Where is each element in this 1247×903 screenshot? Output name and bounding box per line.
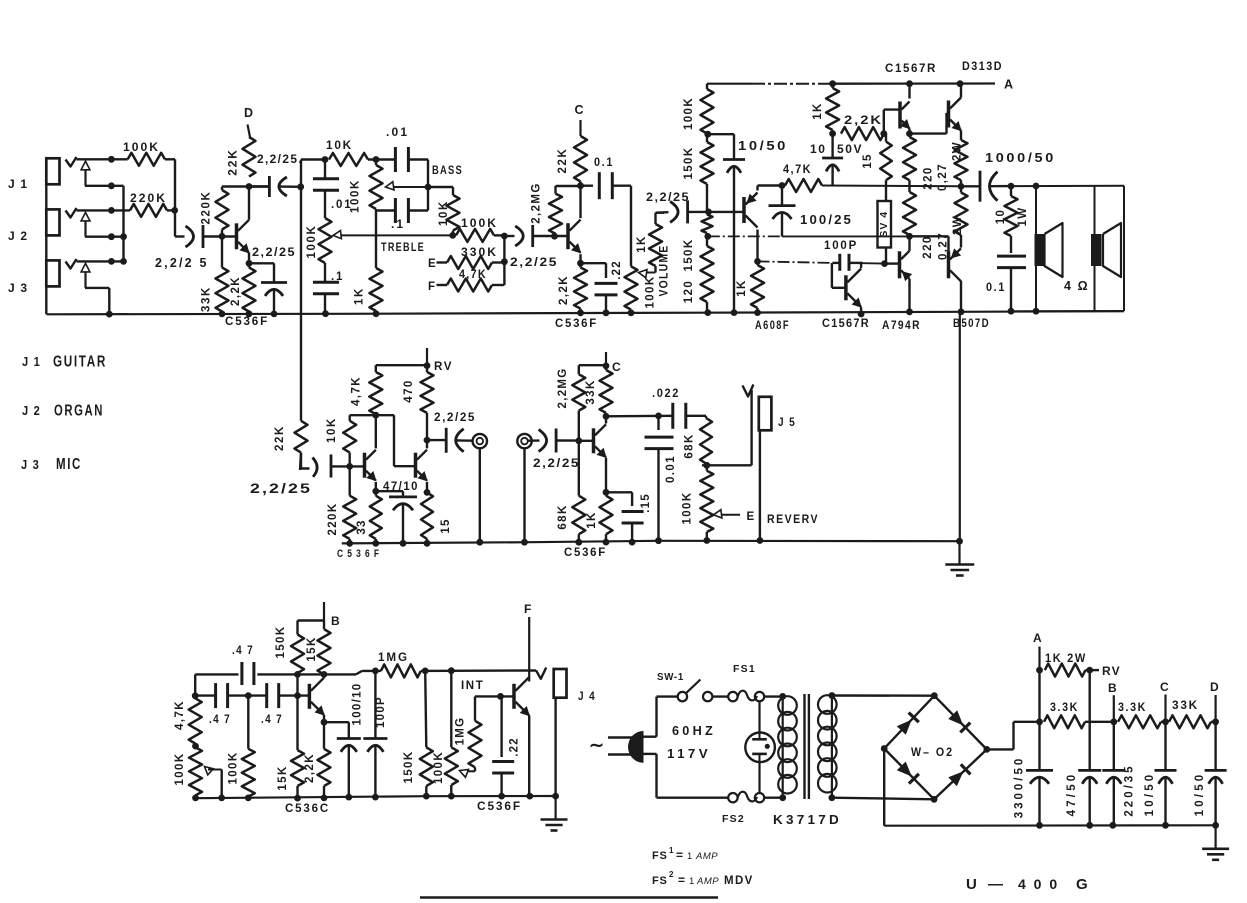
wire Q4 collector	[906, 80, 913, 98]
transistor Q11 C536F return	[594, 424, 607, 457]
svg-text:FS1: FS1	[733, 663, 756, 675]
svg-text:2,2/25.: 2,2/25.	[257, 152, 303, 166]
svg-text:1000/50: 1000/50	[985, 150, 1056, 165]
wire A794R collector	[908, 236, 910, 251]
label 1K ret vert	[586, 511, 598, 529]
label 150K trem vert	[275, 625, 287, 658]
AC plug	[608, 731, 644, 763]
svg-text:D313D: D313D	[962, 61, 1003, 73]
capacitor .47 phase1	[216, 683, 228, 708]
svg-text:2,2/25: 2,2/25	[646, 190, 690, 204]
wire Q13 collector	[0, 0, 1, 1]
label RV supply	[1102, 664, 1121, 678]
wire plug bottom	[644, 754, 729, 798]
svg-text:100K: 100K	[461, 216, 498, 230]
node reverb mix	[702, 462, 752, 469]
capacitor .1 mid	[395, 198, 408, 223]
resistor 2,2K Q2 emitter	[574, 263, 587, 316]
wire bass cap to bass node	[408, 160, 428, 188]
ground symbol trem	[541, 796, 568, 830]
capacitor 47/10	[376, 491, 417, 546]
wire Q4 emitter node	[906, 129, 913, 138]
label D supply	[1210, 680, 1220, 694]
svg-text:150K: 150K	[403, 750, 415, 783]
resistor 150K divider	[701, 134, 714, 212]
resistor 33K Q1 base-gnd	[216, 236, 229, 317]
svg-text:E: E	[747, 511, 756, 523]
node after 10K	[373, 156, 380, 163]
label F	[428, 281, 436, 293]
svg-text:100/25: 100/25	[800, 213, 853, 227]
capacitor .47 osc top	[242, 662, 254, 685]
wire A column	[1036, 670, 1043, 725]
label 68K ret vert	[557, 504, 569, 529]
wire Q12 collector	[323, 674, 325, 677]
resistor 4,7K feedback	[785, 179, 822, 192]
wire jack switch bus	[120, 186, 127, 265]
wire bass pot bottom	[376, 209, 395, 268]
J1 tip contact	[66, 157, 77, 167]
svg-text:2,2/2 5: 2,2/2 5	[155, 256, 209, 270]
wire fs2 to xfmr	[764, 794, 786, 801]
jack J4	[536, 668, 567, 800]
wire collector tee	[222, 185, 268, 187]
svg-text:33K: 33K	[201, 286, 213, 312]
wire supply D stub	[248, 125, 251, 138]
svg-text:AMP: AMP	[696, 876, 719, 887]
resistor 1MG osc	[381, 664, 421, 677]
label 4,7K osc vert	[174, 700, 186, 730]
resistor 120 divider	[701, 236, 714, 316]
resistor 100K divider	[701, 84, 714, 138]
wire A794R emitter	[906, 279, 913, 315]
speaker 2	[1091, 186, 1121, 311]
label 4,7K fb	[783, 162, 812, 176]
wire ground drop right	[956, 312, 963, 545]
bass wiper arrow	[386, 182, 432, 191]
resistor 15K osc base	[291, 696, 304, 802]
label B507D	[953, 318, 990, 330]
capacitor .15 return	[606, 492, 644, 545]
node Q1 collector	[246, 183, 253, 190]
label 2,2K Q2 vert	[558, 275, 570, 305]
capacitor 2,2/25 reverb out	[427, 428, 473, 453]
node Q2 collector	[577, 182, 584, 190]
wire VAS emitter	[858, 307, 865, 317]
capacitor .22 trem	[492, 696, 514, 799]
svg-text:0.1: 0.1	[594, 155, 614, 169]
svg-text:150K: 150K	[683, 146, 695, 179]
wire osc line right	[421, 669, 536, 672]
wire return collector out	[606, 413, 672, 420]
resistor 220 lower	[903, 192, 916, 240]
label .47 top	[232, 643, 254, 657]
resistor 10 1W	[1005, 186, 1018, 253]
wire J3 tip	[77, 258, 124, 265]
label REVERV	[767, 514, 819, 526]
svg-text:=: =	[676, 848, 683, 862]
resistor 33 reverb emitter	[370, 491, 382, 546]
label 3300/50 vert	[1014, 756, 1026, 819]
svg-text:4,7K: 4,7K	[174, 700, 186, 730]
wire J1 switch	[85, 182, 124, 189]
label 4,7K rev vert	[351, 376, 363, 406]
wire secondary bottom	[832, 798, 934, 800]
label FS1	[733, 663, 756, 675]
connector RCA in	[517, 434, 531, 546]
label 100K ph vert	[228, 751, 240, 784]
label FS2	[722, 813, 745, 825]
diode bridge NW	[897, 713, 919, 735]
label 0.1 zobel	[986, 280, 1006, 294]
svg-text:4,7K: 4,7K	[783, 162, 812, 176]
svg-text:.22: .22	[611, 260, 623, 280]
fuse FS1	[728, 691, 764, 702]
svg-text:100K: 100K	[123, 140, 160, 154]
treble wiper arrow	[333, 231, 453, 239]
svg-text:BASS: BASS	[432, 163, 463, 177]
svg-text:1: 1	[687, 851, 692, 862]
label 2,2/25 bypass	[252, 245, 296, 259]
wire to volume pot	[630, 186, 632, 267]
wire J2 switch	[85, 233, 127, 240]
J2 tip contact	[66, 208, 77, 218]
node after 1MG	[422, 668, 429, 675]
svg-text:C536F: C536F	[225, 316, 269, 328]
svg-text:22K: 22K	[557, 148, 569, 174]
node tone in	[322, 156, 329, 163]
svg-text:100P: 100P	[375, 696, 387, 728]
label 68K mix vert	[684, 433, 696, 458]
svg-text:220K: 220K	[201, 191, 213, 225]
resistor 15 reverb	[421, 492, 433, 546]
wire RV column	[1088, 670, 1090, 770]
wire secondary top	[832, 694, 934, 697]
speaker 1	[1035, 186, 1063, 311]
svg-text:J 5: J 5	[778, 415, 796, 429]
capacitor 100P osc	[363, 671, 387, 801]
label 220 upper vert	[923, 166, 935, 189]
label B	[331, 614, 341, 628]
svg-text:4,7K: 4,7K	[351, 376, 363, 406]
node lower base	[881, 260, 888, 267]
label 22K vert	[226, 148, 240, 175]
node A	[1036, 667, 1043, 674]
svg-text:FS: FS	[652, 850, 668, 862]
J1 switch contact	[81, 161, 90, 186]
node feedback	[704, 233, 711, 240]
svg-text:2,2K: 2,2K	[304, 753, 316, 783]
capacitor 100/10	[324, 722, 361, 800]
svg-text:4,7K: 4,7K	[459, 269, 487, 281]
svg-text:3.3K: 3.3K	[1118, 700, 1147, 714]
label K3717D	[773, 813, 842, 827]
svg-text:INT: INT	[461, 680, 484, 692]
capacitor 10/50 bootstrap	[708, 134, 745, 316]
label D	[244, 106, 254, 120]
svg-text:C: C	[612, 360, 622, 374]
label 33K vert	[201, 286, 213, 312]
svg-text:2,2MG: 2,2MG	[531, 182, 543, 224]
J2 switch contact	[81, 212, 90, 236]
wire to .01 bass cap	[368, 158, 395, 160]
resistor 22K reverb tap	[295, 421, 308, 470]
resistor 470 reverb	[421, 366, 434, 441]
svg-text:RV: RV	[1102, 664, 1121, 678]
label 150K div vert	[683, 146, 695, 179]
resistor 4,7K reverb	[369, 365, 382, 414]
label C536F reverb1	[337, 548, 380, 560]
wire B stub	[323, 602, 325, 621]
resistor 68K return base	[572, 441, 585, 546]
svg-text:1MG: 1MG	[455, 717, 467, 746]
resistor 33K CD	[1169, 715, 1219, 728]
wire B branch	[298, 621, 325, 635]
label 117V	[667, 747, 711, 761]
svg-text:0.01: 0.01	[665, 455, 677, 483]
potentiometer 100K volume	[625, 266, 638, 316]
svg-text:2,2K: 2,2K	[558, 275, 570, 305]
label 100K	[123, 140, 160, 154]
label 3,3K AB	[1050, 700, 1079, 714]
label 33K CD	[1172, 698, 1199, 712]
jack J2	[46, 209, 59, 235]
label 1K rail vert	[812, 102, 824, 120]
label A608F	[755, 320, 790, 332]
resistor 1K tone	[370, 268, 383, 317]
resistor 150K divider lower	[702, 212, 713, 237]
svg-text:100K: 100K	[682, 491, 694, 524]
label B supply	[1108, 681, 1118, 695]
capacitor 2,2/25 driver in	[656, 200, 709, 223]
svg-text:3.3K: 3.3K	[1050, 700, 1079, 714]
label J2	[8, 229, 28, 243]
potentiometer 100K reverb	[700, 465, 713, 544]
capacitor 2,2/25 Q1 out	[249, 176, 304, 197]
label J3 MIC	[21, 456, 82, 473]
label 100/10 vert	[352, 683, 364, 726]
svg-text:150K: 150K	[683, 238, 695, 271]
svg-text:J 4: J 4	[578, 689, 596, 703]
label C reverb	[612, 360, 622, 374]
label F	[524, 602, 532, 616]
wire trem ground rail	[195, 796, 558, 798]
capacitor .01 treble top	[313, 160, 339, 219]
diode bridge NE	[948, 710, 970, 732]
resistor 2,2K osc emitter	[318, 722, 331, 801]
label .022	[652, 386, 680, 400]
svg-text:K3717D: K3717D	[773, 813, 842, 827]
svg-text:1K: 1K	[812, 102, 824, 120]
label 220/35 vert	[1124, 763, 1136, 816]
wire phase row	[195, 692, 309, 699]
capacitor 47/50	[1078, 770, 1101, 828]
resistor 2,2K Q1 emitter	[243, 263, 256, 317]
transistor Q7 A794R lower driver	[885, 251, 912, 280]
wire supply C stub	[579, 120, 581, 136]
wire Q12 emitter	[321, 715, 328, 726]
svg-text:2,2K: 2,2K	[844, 113, 883, 127]
jack J5	[743, 385, 772, 544]
label A rail	[1004, 78, 1014, 92]
thermistor SV4	[878, 180, 892, 263]
svg-text:33K: 33K	[1172, 698, 1199, 712]
label 10/50	[738, 139, 788, 153]
wire Q10 emitter	[424, 482, 431, 496]
node return collector	[603, 413, 610, 420]
svg-text:220: 220	[922, 235, 934, 258]
wire left ground bus of jacks	[45, 158, 47, 314]
resistor 3,3K AB	[1044, 715, 1117, 728]
node tone out	[449, 232, 456, 239]
resistor 1K 2W	[1045, 664, 1093, 677]
svg-text:2,2K: 2,2K	[230, 276, 242, 306]
svg-text:10K: 10K	[438, 200, 450, 226]
wire RV out	[1090, 669, 1099, 671]
svg-text:U: U	[966, 876, 978, 893]
resistor 2,2K bias	[841, 127, 887, 140]
wire bridge plus	[987, 722, 1040, 750]
label 33 vert	[356, 519, 368, 534]
label .1 bottom	[331, 271, 344, 283]
label INT	[461, 680, 484, 692]
svg-text:220K: 220K	[130, 191, 167, 205]
label 220K vert	[201, 191, 213, 225]
label 2,2K osc vert	[304, 753, 316, 783]
svg-text:F: F	[524, 602, 532, 616]
label J5	[778, 415, 796, 429]
capacitor 10 50V bootstrap2	[822, 134, 843, 186]
label 2,2K vert	[230, 276, 242, 306]
label VOLUME vert	[659, 245, 671, 297]
svg-text:D: D	[1210, 680, 1220, 694]
label 2W upper vert	[952, 141, 964, 161]
wire to reverb send	[301, 160, 325, 421]
label 100K int vert	[433, 751, 445, 784]
svg-text:15K: 15K	[306, 636, 318, 661]
speed wiper arrow	[205, 767, 226, 802]
resistor 1K rail	[826, 80, 839, 137]
capacitor 220/35	[1102, 722, 1125, 829]
svg-text:.15: .15	[640, 493, 652, 513]
potentiometer 100K bass	[370, 160, 383, 210]
wire sw to fs1	[712, 695, 728, 697]
capacitor .22 Q2 bypass	[581, 263, 618, 316]
wire Q10 collector	[426, 440, 428, 448]
resistor 2,2MG feedback	[549, 186, 581, 236]
resistor 220 upper	[903, 134, 916, 192]
wire C supply link	[579, 363, 610, 370]
wire Q1 emitter	[246, 253, 253, 267]
wire VAS line	[758, 261, 885, 263]
jack J3	[46, 260, 59, 286]
label .47 ph1	[209, 712, 231, 726]
capacitor 3300/50	[1026, 722, 1053, 829]
label 10K	[326, 138, 353, 152]
node driver base	[705, 209, 712, 216]
svg-text:W– O2: W– O2	[911, 745, 954, 759]
neon lamp	[745, 701, 775, 793]
svg-text:1K: 1K	[354, 287, 366, 305]
label W-O2	[911, 745, 954, 759]
label C supply	[1160, 680, 1170, 694]
label .1 mid	[391, 217, 405, 231]
svg-text:MDV: MDV	[724, 875, 754, 887]
label 2W lower vert	[952, 215, 964, 235]
label 100P vert	[375, 696, 387, 728]
svg-text:2,2/25: 2,2/25	[434, 410, 476, 424]
label J3	[8, 281, 28, 295]
wire J3 switch to ground	[85, 288, 113, 318]
label C536C	[285, 803, 330, 815]
wire D stub supply	[1214, 695, 1216, 722]
svg-text:FS2: FS2	[722, 813, 745, 825]
capacitor 0.1 Q2 out	[581, 172, 632, 199]
label 10/50 C vert	[1144, 772, 1156, 817]
wire plug top	[644, 697, 678, 737]
wire bass node down	[408, 187, 428, 211]
capacitor 2,2/25 Q1 bypass	[249, 263, 287, 317]
svg-text:J 2: J 2	[8, 229, 28, 243]
svg-text:100K: 100K	[683, 97, 695, 130]
label 100K bass vert	[350, 179, 362, 213]
label U-400G	[966, 876, 1089, 893]
svg-text:47/50: 47/50	[1066, 772, 1078, 817]
transistor Q6 B507D	[949, 248, 962, 281]
svg-text:.01: .01	[331, 199, 352, 211]
svg-text:=: =	[678, 873, 685, 887]
label FS1 note	[652, 846, 718, 862]
svg-text:2: 2	[669, 870, 674, 879]
wire reverb coupling	[350, 412, 416, 466]
resistor 1K return emitter	[600, 492, 613, 545]
wire Q3 collector	[754, 230, 761, 265]
svg-text:100K: 100K	[433, 751, 445, 784]
svg-text:22K: 22K	[226, 148, 240, 175]
svg-text:100K: 100K	[228, 751, 240, 784]
svg-text:10: 10	[995, 209, 1007, 225]
label A794R	[882, 320, 921, 332]
wire Q9 emitter	[372, 482, 379, 495]
wire bass node right	[428, 187, 453, 195]
svg-text:C1567R: C1567R	[885, 63, 937, 75]
svg-text:15: 15	[862, 153, 874, 168]
label 100K rev pot vert	[682, 491, 694, 524]
diode bridge SE	[948, 764, 970, 786]
label 15K trem vert	[306, 636, 318, 661]
capacitor 10/50 C	[1155, 722, 1177, 829]
resistor 330K E	[437, 256, 505, 269]
label 60HZ	[672, 724, 716, 738]
svg-text:3300/50: 3300/50	[1014, 756, 1026, 819]
svg-text:10K: 10K	[326, 417, 338, 443]
svg-text:1MG: 1MG	[378, 650, 409, 664]
label 330K	[461, 245, 498, 259]
label .01 treble	[331, 199, 352, 211]
svg-text:4 Ω: 4 Ω	[1064, 279, 1089, 293]
label 4,7K	[459, 269, 487, 281]
wire B507D base	[910, 236, 949, 252]
label D313D	[962, 61, 1003, 73]
capacitor .022	[673, 403, 706, 429]
svg-text:100/10: 100/10	[352, 683, 364, 726]
label 220K	[130, 191, 167, 205]
transistor Q12 C536C osc	[309, 678, 324, 715]
label BASS	[432, 163, 463, 177]
label 15 rev vert	[440, 518, 452, 533]
label FS2 note	[652, 870, 754, 887]
label C	[575, 103, 585, 117]
